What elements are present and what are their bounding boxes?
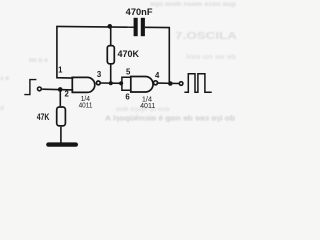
ghost show-through text left edge xyxy=(0,57,48,112)
NAND gate U1A 1/4 4011 xyxy=(72,77,95,92)
ground xyxy=(46,142,78,146)
wire input to gate1 pin2 xyxy=(42,88,73,91)
wire input fork for pins 5/6 xyxy=(122,77,132,90)
resistor 47K xyxy=(57,107,66,126)
node junction on input wire xyxy=(58,87,63,92)
gate2 output bubble xyxy=(154,81,158,85)
node junction top (node A) xyxy=(107,24,112,29)
svg-text:470nF: 470nF xyxy=(126,7,153,17)
capacitor C 470nF xyxy=(134,18,138,36)
wire gate1 out to gate2 in xyxy=(101,82,122,84)
svg-text:4011: 4011 xyxy=(140,101,155,110)
wire gate2 out to output terminal xyxy=(158,82,179,84)
svg-text:ɔ ɘ: ɔ ɘ xyxy=(0,75,9,82)
svg-text:4011: 4011 xyxy=(79,101,93,110)
output square wave symbol xyxy=(184,74,211,93)
wire top horizontal right segment xyxy=(145,26,170,28)
wire right vertical down to output node xyxy=(168,28,170,84)
svg-text:5: 5 xyxy=(126,68,131,77)
node junction gate2 input xyxy=(119,81,123,85)
wire top-left vertical (feedback to pin1) xyxy=(57,26,74,78)
wire 47K to ground xyxy=(60,127,62,143)
NAND gate U1B 1/4 4011 xyxy=(131,77,153,93)
input step waveform symbol xyxy=(24,80,36,95)
svg-text:im ɒ ɘ: im ɒ ɘ xyxy=(29,57,48,64)
wire junction down to 47K xyxy=(59,90,61,107)
resistor 470K xyxy=(107,46,114,64)
svg-text:ɘqɒ woib nsɘm ɘɔsn ɒup: ɘqɒ woib nsɘm ɘɔsn ɒup xyxy=(150,1,236,8)
gate1 output bubble xyxy=(96,81,100,85)
svg-text:ʇniɘ un ɘʜ ɘb: ʇniɘ un ɘʜ ɘb xyxy=(186,54,236,61)
wire node A down to 470K xyxy=(110,26,112,45)
svg-text:3: 3 xyxy=(97,70,102,79)
output terminal circle xyxy=(179,82,183,86)
ghost show-through text top right xyxy=(150,1,238,61)
svg-text:A ʇɿoqüênɔiɒ é gɒn ɘb ɘɘɔ ɒɿʇ: A ʇɿoqüênɔiɒ é gɒn ɘb ɘɘɔ ɒɿʇ ob xyxy=(105,114,236,123)
wire top horizontal left segment xyxy=(56,25,134,28)
svg-text:470K: 470K xyxy=(118,49,140,60)
input terminal circle xyxy=(38,87,42,91)
svg-text:7.OSCILA: 7.OSCILA xyxy=(175,30,237,42)
svg-text:2: 2 xyxy=(65,90,70,99)
wire 470K down to gate1 output net xyxy=(110,64,112,83)
node junction resistor/gate1-out xyxy=(109,81,113,85)
svg-text:6: 6 xyxy=(125,92,130,101)
ghost show-through text bottom right xyxy=(105,106,236,123)
svg-text:d: d xyxy=(0,105,4,112)
svg-text:1: 1 xyxy=(58,66,63,75)
svg-text:47K: 47K xyxy=(37,111,50,122)
svg-text:4: 4 xyxy=(155,71,160,80)
node junction output xyxy=(168,81,173,86)
